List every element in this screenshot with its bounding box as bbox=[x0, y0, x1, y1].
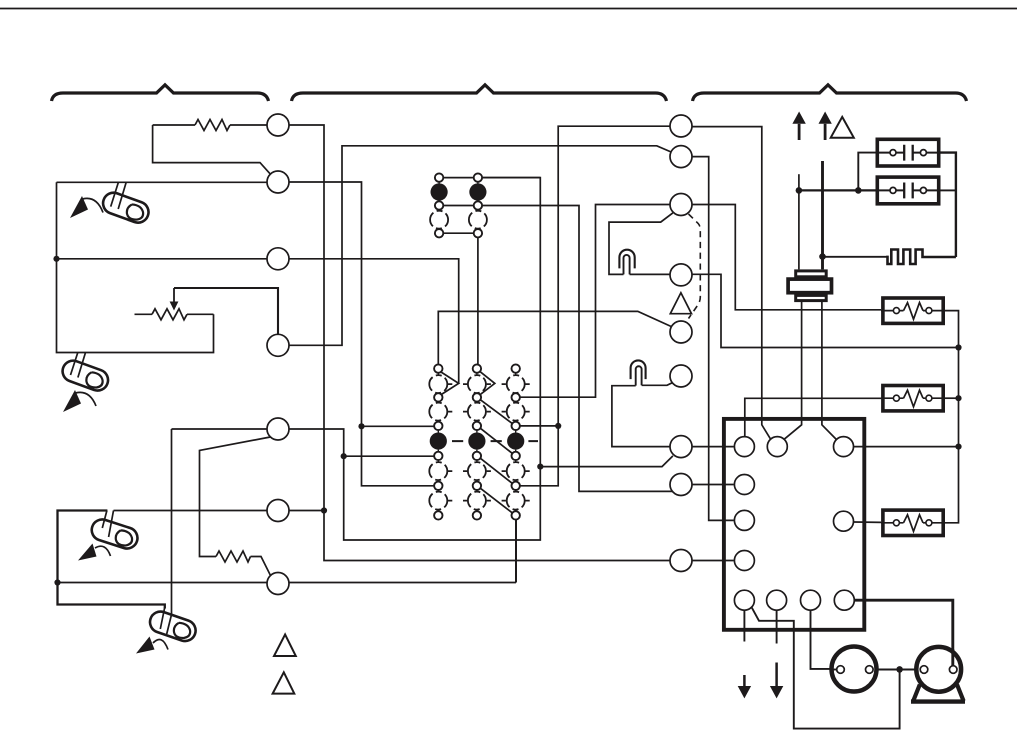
junction bbox=[819, 253, 826, 260]
wire resistor loop to L2 bbox=[153, 125, 271, 174]
wire L4 right up and across to R2 bbox=[289, 146, 672, 345]
wire col3-397 right to V595 up to R3 bbox=[520, 205, 671, 398]
wire cap right side loop bbox=[941, 153, 956, 257]
wire R5 row to lower col1 bbox=[438, 311, 671, 365]
wire top contact row to V540 bbox=[443, 177, 540, 179]
wire diag col2-456 to col3-486 bbox=[480, 458, 513, 484]
wire R4 right to V721 to V958 bbox=[692, 274, 959, 347]
wire T9 stub down bbox=[776, 610, 778, 643]
triangle note 1 bbox=[670, 293, 691, 314]
plug connector P1 bbox=[788, 271, 831, 301]
wire L7 row bbox=[58, 582, 517, 584]
potentiometer wiper arrow bbox=[173, 288, 175, 303]
contact small circles col3 bbox=[512, 364, 520, 372]
junction bbox=[955, 444, 961, 450]
terminal L3 bbox=[267, 248, 289, 270]
wire L5 right to V344 bottom loop up to top contact row bbox=[289, 178, 540, 540]
capacitor C1 box bbox=[877, 139, 938, 166]
mercury switch S2 bbox=[60, 353, 111, 413]
potentiometer left stub bbox=[135, 313, 153, 315]
wire L2 right to V361 bbox=[289, 182, 435, 486]
linkage dashed R3-R5 bbox=[689, 214, 701, 319]
wire L3 left lead bbox=[57, 258, 268, 260]
contact button dashed (top group) bbox=[430, 211, 448, 229]
junction bbox=[955, 344, 961, 350]
capacitor C2 box bbox=[877, 177, 938, 204]
wire branch to R7 lower lead bbox=[540, 456, 673, 467]
terminal L2 bbox=[267, 171, 289, 193]
wire diag col2-486 to col3-515 bbox=[480, 488, 513, 513]
arrow up power 1 bbox=[792, 112, 805, 141]
wire L5 diagonal to resistor R2 chain bbox=[200, 437, 271, 557]
contact column connector stubs bbox=[437, 372, 439, 511]
arrow up power 2 bbox=[819, 112, 832, 141]
contact col small circles (top group left) bbox=[438, 181, 440, 229]
triangle note 4 bbox=[831, 117, 854, 138]
wire mercury4 electrode vertical bbox=[171, 429, 173, 616]
wire L1 right to V324 down to R9 row bbox=[289, 125, 670, 561]
potentiometer zigzag bbox=[152, 309, 187, 320]
contact button filled (top group) bbox=[431, 183, 448, 200]
wire T8 stub down bbox=[743, 610, 745, 641]
terminal R9 bbox=[670, 550, 692, 572]
wire cap2 right lead bbox=[941, 189, 956, 191]
resistor R1 (heat anticipator) leads bbox=[153, 124, 267, 126]
arrow down load 1 bbox=[738, 675, 751, 698]
junction bbox=[54, 579, 60, 585]
junction bbox=[537, 464, 543, 470]
wire R3 diagonal to lamp1 to R4 bbox=[609, 213, 673, 275]
wire plug pin1 to contactor coil bbox=[784, 302, 802, 440]
resistor box RB3 bbox=[881, 510, 943, 535]
terminal R5 bbox=[670, 321, 692, 343]
wire branch to col1 small 426 bbox=[362, 425, 435, 427]
terminal L7 bbox=[267, 573, 289, 595]
wire motor1 inner lead bbox=[833, 669, 837, 671]
wire T10 to motor1 bbox=[811, 610, 837, 669]
wire cap feed row bbox=[799, 189, 876, 191]
junction bbox=[321, 507, 327, 513]
contactor terminal T10 bbox=[801, 590, 821, 610]
lamp LT1 bbox=[619, 250, 634, 275]
wire power lead 2 to plug bbox=[821, 161, 824, 269]
mercury switch S3 bbox=[78, 511, 140, 561]
wire diag col2-397 to col3-426 bbox=[480, 400, 513, 424]
contactor terminal T6 bbox=[734, 551, 754, 571]
wire RB2 right lead bbox=[943, 397, 958, 399]
lamp LT2 bbox=[631, 360, 646, 385]
wire R8 right to contactor bbox=[692, 484, 734, 486]
wire RB1 right to V958 bbox=[943, 311, 958, 523]
wire mercury3 loop thick bbox=[58, 511, 165, 609]
wire res2 feed from contactor T1 bbox=[745, 398, 881, 436]
heater element lead bbox=[823, 256, 888, 258]
wire R7 right to contactor bbox=[692, 446, 734, 448]
contactor terminal T3 bbox=[834, 437, 854, 457]
contactor box K1 bbox=[724, 419, 864, 630]
wire top contact row2 to V579 to R8 bbox=[443, 206, 673, 492]
potentiometer right lead bbox=[187, 313, 214, 315]
terminal R6 bbox=[670, 365, 692, 387]
junction bbox=[855, 187, 862, 194]
arrow down load 2 bbox=[770, 663, 783, 699]
wire R2 right to V709 to contactor bbox=[692, 157, 734, 521]
terminal R8 bbox=[670, 474, 692, 496]
junction bbox=[896, 666, 903, 673]
junction bbox=[955, 395, 961, 401]
contactor terminal T8 bbox=[734, 590, 754, 610]
triangle note 3 bbox=[273, 672, 295, 693]
terminal R7 bbox=[670, 436, 692, 458]
brace: subbase section bbox=[292, 85, 667, 101]
page top rule bbox=[0, 8, 1017, 10]
contact buttons dashed row 384 bbox=[429, 375, 447, 393]
terminal L5 bbox=[267, 418, 289, 440]
mercury switch S1 bbox=[70, 182, 151, 225]
contactor terminal T11 bbox=[834, 590, 854, 610]
junction bbox=[796, 187, 803, 194]
contact small circles col2 bbox=[473, 364, 481, 372]
contact small circles col1 bbox=[434, 364, 442, 372]
wire T11 to motor2 bbox=[855, 600, 953, 667]
mercury switch S4 bbox=[136, 607, 198, 654]
brace: thermostat section bbox=[52, 85, 269, 101]
motor M2 with base bbox=[911, 647, 965, 702]
contact buttons dashed row 501 bbox=[429, 492, 447, 510]
wire V57 upper: mercury rows bbox=[57, 182, 214, 352]
wire diag col2-426 to col3-456 bbox=[480, 428, 513, 454]
wire cap1 left lead bbox=[858, 153, 875, 191]
motor M1 bbox=[832, 647, 877, 692]
wire R1 right to V762 to contactor coil bbox=[692, 127, 771, 440]
terminal R4 bbox=[670, 264, 692, 286]
resistor R2 zigzag bbox=[216, 551, 251, 562]
wire T11 lead inside motor2 bbox=[951, 649, 954, 666]
brace: unit section bbox=[693, 85, 967, 101]
wire R9 right to contactor bbox=[692, 560, 734, 562]
wire fork col1 diagonals bbox=[441, 372, 459, 394]
junction bbox=[555, 423, 561, 429]
wire wiper to L4 top bbox=[174, 288, 278, 334]
wire resistor R2 to L7 bbox=[251, 557, 271, 576]
terminal L1 bbox=[267, 114, 289, 136]
contact buttons filled row 441 bbox=[430, 433, 447, 450]
contact buttons dashed row 412 bbox=[429, 403, 447, 421]
wire contactor right-mid to RB3 bbox=[854, 521, 881, 523]
wire contactor T3 right to V958 bbox=[854, 446, 959, 448]
contact stack top group bbox=[430, 173, 487, 237]
wire L6 right to V324 bbox=[289, 510, 324, 512]
wire T8 to motor loop bbox=[752, 607, 900, 728]
resistor box RB1 bbox=[881, 298, 943, 323]
wire L6 left to mercury3 bbox=[114, 510, 268, 512]
terminal L6 bbox=[267, 500, 289, 522]
resistor R1 zigzag bbox=[195, 120, 230, 131]
terminal R1 bbox=[670, 115, 692, 137]
heater element teeth bbox=[888, 250, 956, 265]
wire plug pin2 to contactor bbox=[822, 302, 837, 440]
wire top contact row3 bbox=[443, 232, 474, 234]
contactor terminal T7 bbox=[834, 511, 854, 531]
wire L3 right to fork vertical bbox=[289, 259, 459, 384]
junction bbox=[53, 256, 59, 262]
wire power lead 1 to plug bbox=[798, 174, 800, 269]
contactor terminal T1 bbox=[734, 437, 754, 457]
terminal R3 bbox=[670, 194, 692, 216]
wire col3 bottom drop to L7 row bbox=[515, 519, 517, 582]
junction bbox=[341, 453, 347, 459]
contact stack lower group bbox=[429, 364, 538, 519]
junction bbox=[358, 423, 364, 429]
wire fork col2 zigzag bbox=[480, 372, 495, 395]
wire R3 right to V735 to resistor box row bbox=[692, 205, 881, 310]
contact buttons dashed row 471 bbox=[429, 462, 447, 480]
contactor terminal T5 bbox=[734, 510, 754, 530]
contactor terminal T9 bbox=[767, 590, 787, 610]
terminal L4 bbox=[267, 334, 289, 356]
wire mercury1 row to L2 bbox=[57, 181, 268, 183]
wire V558 from R1 row down to col3-486 bbox=[520, 126, 671, 486]
wire top group colR down to lower col2 bbox=[477, 237, 479, 365]
wire L5 left to mercury4 electrode bbox=[172, 428, 268, 430]
triangle note 2 bbox=[274, 635, 296, 657]
wire col3-426 to V558 bbox=[520, 425, 559, 427]
wire branch to stack col1 small 456 bbox=[344, 455, 435, 457]
terminal R2 bbox=[670, 146, 692, 168]
contactor terminal T2 bbox=[767, 437, 787, 457]
resistor box RB2 bbox=[881, 386, 943, 411]
wire motor1 to motor2 bbox=[873, 669, 920, 671]
wire R6 diagonal to lamp2 to R7 bbox=[612, 382, 674, 446]
contactor terminal T4 bbox=[734, 475, 754, 495]
